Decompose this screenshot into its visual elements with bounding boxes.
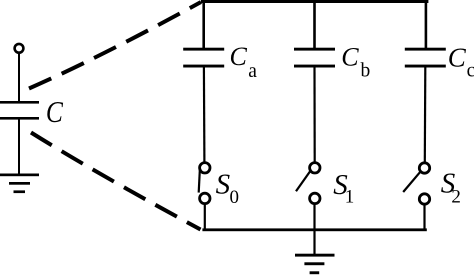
svg-text:C: C <box>230 42 248 71</box>
svg-text:2: 2 <box>451 187 461 208</box>
svg-text:S: S <box>216 169 231 201</box>
svg-text:a: a <box>248 61 257 82</box>
svg-text:1: 1 <box>345 187 355 208</box>
svg-text:c: c <box>467 61 474 82</box>
svg-text:b: b <box>361 60 371 81</box>
svg-text:0: 0 <box>230 187 240 208</box>
svg-text:C: C <box>448 42 467 72</box>
svg-text:C: C <box>46 96 64 130</box>
svg-text:C: C <box>341 42 359 71</box>
